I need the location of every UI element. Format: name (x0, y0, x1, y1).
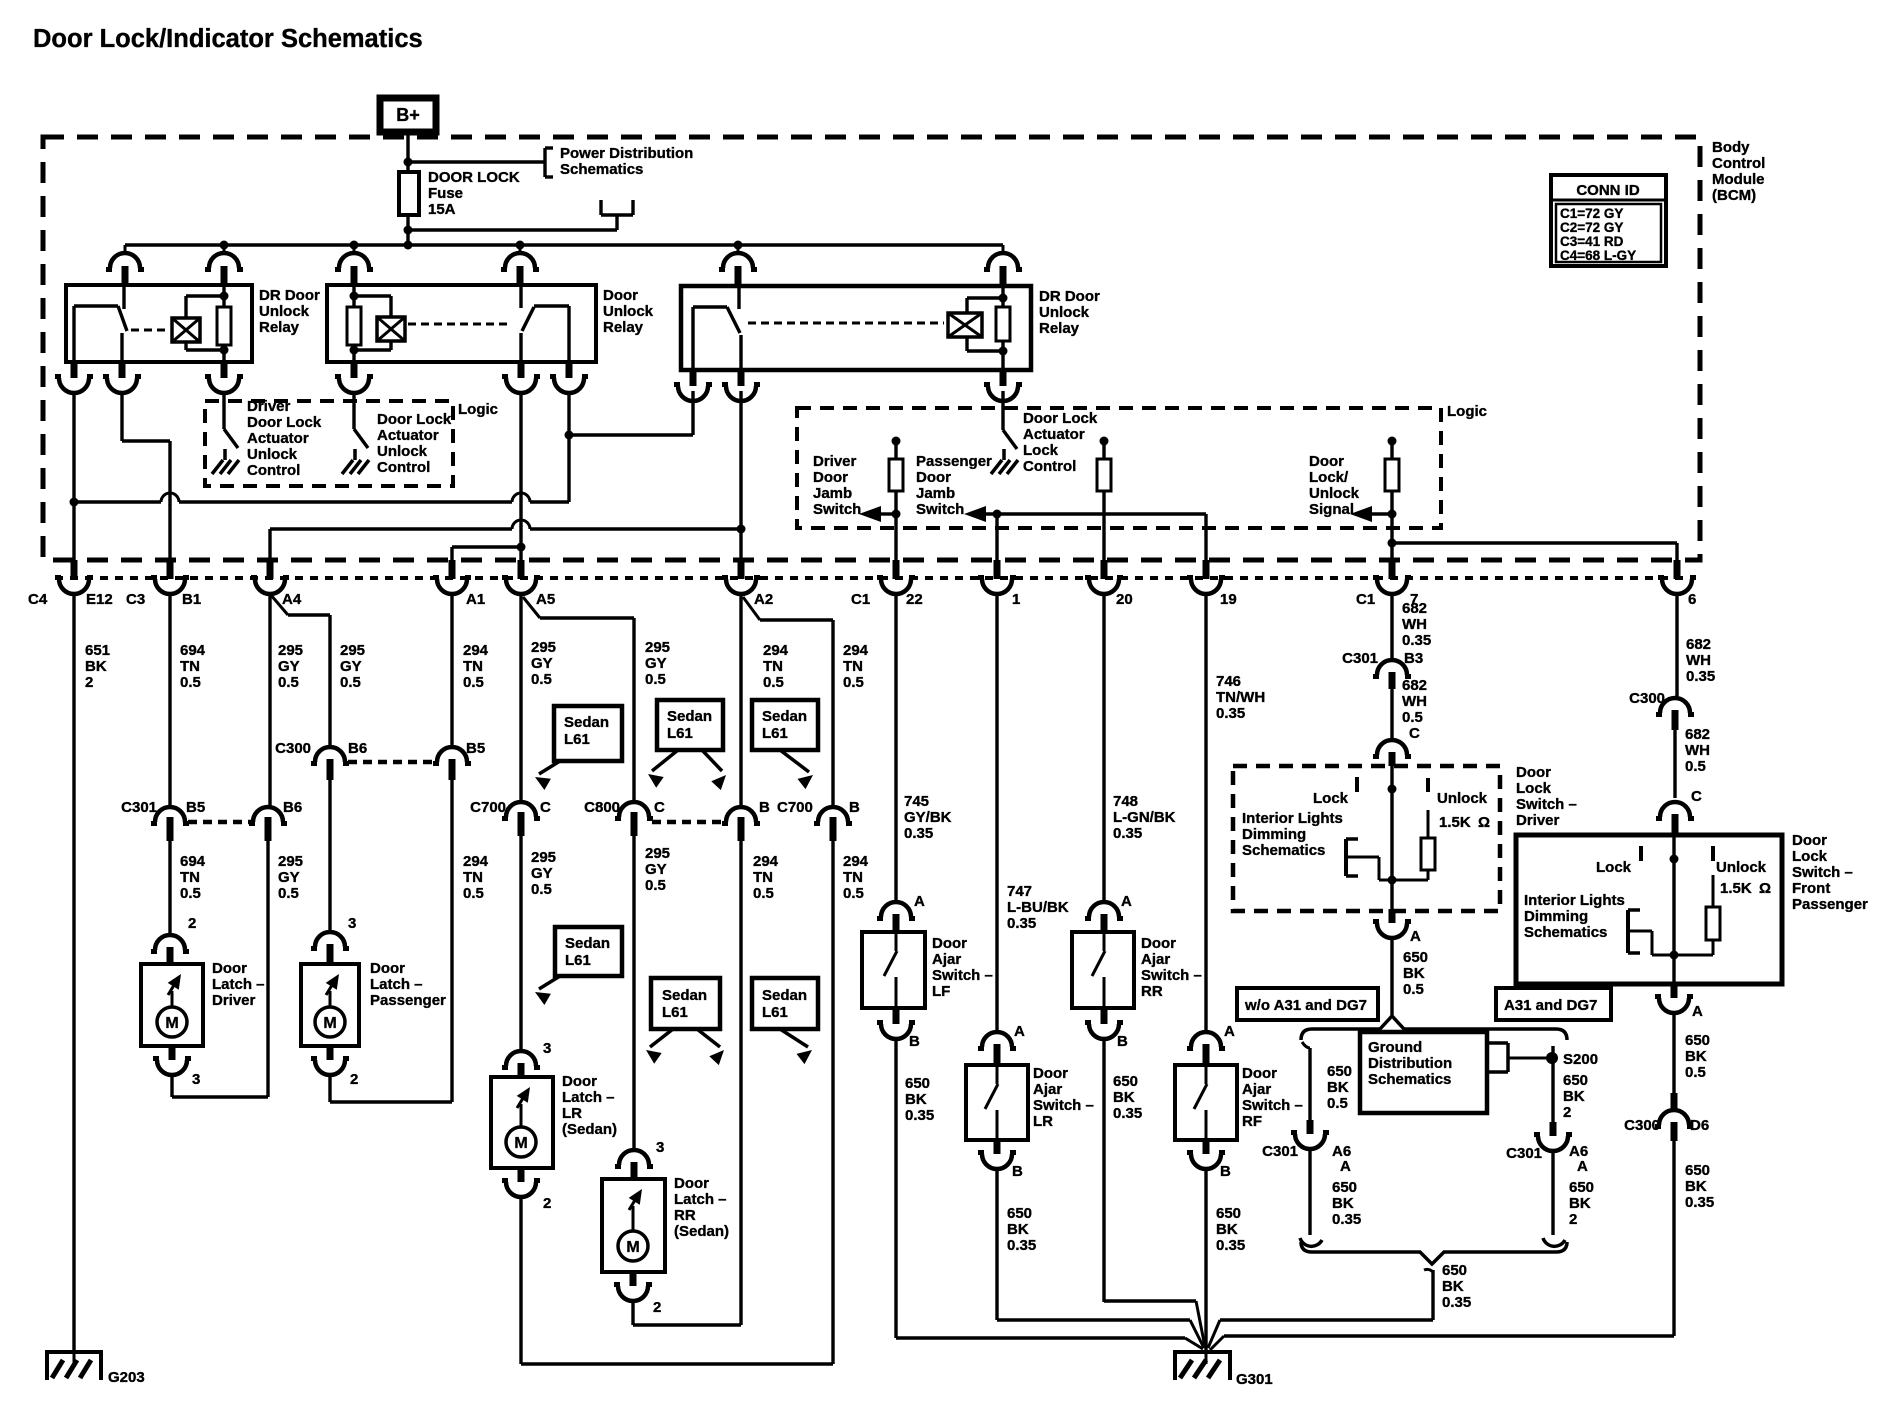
svg-text:Front: Front (1792, 880, 1830, 897)
svg-text:Latch –: Latch – (370, 976, 423, 993)
svg-text:Passenger: Passenger (370, 992, 446, 1009)
svg-text:0.5: 0.5 (843, 674, 864, 691)
svg-text:Door: Door (916, 469, 951, 486)
svg-text:C300: C300 (275, 740, 311, 757)
svg-text:A1: A1 (466, 591, 485, 608)
svg-text:C300: C300 (1624, 1117, 1660, 1134)
svg-text:Schematics: Schematics (1524, 924, 1607, 941)
svg-text:Distribution: Distribution (1368, 1055, 1452, 1072)
svg-text:WH: WH (1402, 693, 1427, 710)
svg-text:C301: C301 (121, 799, 157, 816)
svg-text:B6: B6 (348, 740, 367, 757)
svg-text:B: B (1220, 1163, 1231, 1180)
svg-text:0.5: 0.5 (463, 885, 484, 902)
svg-text:Unlock: Unlock (377, 443, 428, 460)
svg-text:0.35: 0.35 (1113, 1105, 1142, 1122)
svg-text:C301: C301 (1506, 1145, 1542, 1162)
svg-text:C4: C4 (28, 591, 48, 608)
svg-text:Door Lock: Door Lock (247, 414, 322, 431)
svg-text:TN: TN (180, 658, 200, 675)
svg-text:Logic: Logic (1447, 403, 1487, 420)
svg-text:0.5: 0.5 (1402, 709, 1423, 726)
svg-text:295: 295 (340, 642, 365, 659)
svg-text:A4: A4 (282, 591, 302, 608)
svg-text:650: 650 (1216, 1205, 1241, 1222)
svg-text:M: M (514, 1135, 527, 1152)
svg-text:650: 650 (1113, 1073, 1138, 1090)
svg-text:Module: Module (1712, 171, 1765, 188)
svg-text:WH: WH (1402, 616, 1427, 633)
svg-text:682: 682 (1685, 726, 1710, 743)
svg-text:20: 20 (1116, 591, 1133, 608)
svg-text:A: A (1014, 1023, 1025, 1040)
svg-text:Driver: Driver (212, 992, 256, 1009)
svg-text:B: B (759, 799, 770, 816)
svg-text:Lock: Lock (1596, 859, 1632, 876)
svg-text:RR: RR (1141, 983, 1163, 1000)
svg-text:M: M (323, 1015, 336, 1032)
svg-text:Door: Door (813, 469, 848, 486)
svg-text:Door: Door (932, 935, 967, 952)
svg-text:L-GN/BK: L-GN/BK (1113, 809, 1176, 826)
svg-text:2: 2 (1569, 1211, 1577, 1228)
svg-text:3: 3 (192, 1071, 200, 1088)
svg-text:Passenger: Passenger (916, 453, 992, 470)
svg-text:BK: BK (1685, 1048, 1707, 1065)
svg-text:Switch: Switch (813, 501, 861, 518)
svg-text:6: 6 (1688, 591, 1696, 608)
svg-text:748: 748 (1113, 793, 1138, 810)
svg-text:A2: A2 (754, 591, 773, 608)
svg-text:RF: RF (1242, 1113, 1262, 1130)
svg-text:0.35: 0.35 (1685, 1194, 1714, 1211)
svg-text:651: 651 (85, 642, 110, 659)
svg-text:C3=41 RD: C3=41 RD (1560, 234, 1624, 249)
svg-text:C700: C700 (777, 799, 813, 816)
svg-text:Switch –: Switch – (1792, 864, 1853, 881)
svg-text:Switch: Switch (916, 501, 964, 518)
svg-text:TN: TN (753, 869, 773, 886)
svg-text:682: 682 (1686, 636, 1711, 653)
svg-text:0.5: 0.5 (278, 674, 299, 691)
svg-text:2: 2 (653, 1299, 661, 1316)
svg-text:C: C (1409, 725, 1420, 742)
svg-text:B: B (1117, 1033, 1128, 1050)
svg-text:0.5: 0.5 (278, 885, 299, 902)
svg-text:Lock: Lock (1792, 848, 1828, 865)
svg-text:C1: C1 (851, 591, 870, 608)
svg-text:Sedan: Sedan (565, 935, 610, 952)
svg-text:Control: Control (247, 462, 300, 479)
svg-text:C: C (540, 799, 551, 816)
svg-text:D6: D6 (1690, 1117, 1709, 1134)
svg-text:650: 650 (1332, 1179, 1357, 1196)
svg-text:Relay: Relay (259, 319, 300, 336)
svg-text:Door: Door (603, 287, 638, 304)
svg-text:0.5: 0.5 (645, 671, 666, 688)
svg-text:GY: GY (531, 865, 553, 882)
svg-text:Relay: Relay (1039, 320, 1080, 337)
svg-text:A31 and DG7: A31 and DG7 (1504, 997, 1597, 1014)
svg-text:Logic: Logic (458, 401, 498, 418)
svg-text:Door: Door (212, 960, 247, 977)
svg-text:294: 294 (753, 853, 779, 870)
svg-text:Ajar: Ajar (1141, 951, 1170, 968)
svg-text:Control: Control (377, 459, 430, 476)
svg-text:Door: Door (1516, 764, 1551, 781)
svg-text:650: 650 (1327, 1063, 1352, 1080)
svg-text:C: C (1691, 788, 1702, 805)
svg-text:Sedan: Sedan (762, 708, 807, 725)
svg-text:0.35: 0.35 (1007, 1237, 1036, 1254)
svg-text:GY: GY (645, 655, 667, 672)
svg-text:GY/BK: GY/BK (904, 809, 952, 826)
svg-text:2: 2 (543, 1195, 551, 1212)
svg-text:B3: B3 (1404, 650, 1423, 667)
svg-text:0.5: 0.5 (180, 674, 201, 691)
svg-text:GY: GY (340, 658, 362, 675)
svg-text:0.5: 0.5 (1685, 1064, 1706, 1081)
svg-text:Door: Door (1792, 832, 1827, 849)
svg-text:650: 650 (1569, 1179, 1594, 1196)
svg-text:WH: WH (1686, 652, 1711, 669)
svg-text:Door Lock: Door Lock (377, 411, 452, 428)
svg-text:TN: TN (180, 869, 200, 886)
svg-text:L61: L61 (762, 725, 788, 742)
svg-text:Ajar: Ajar (1033, 1081, 1062, 1098)
svg-text:Actuator: Actuator (377, 427, 439, 444)
svg-text:0.35: 0.35 (1402, 632, 1431, 649)
svg-text:650: 650 (1685, 1162, 1710, 1179)
svg-text:G203: G203 (108, 1369, 145, 1386)
svg-text:Driver: Driver (813, 453, 857, 470)
svg-text:650: 650 (905, 1075, 930, 1092)
svg-text:BK: BK (1403, 965, 1425, 982)
svg-text:BK: BK (85, 658, 107, 675)
svg-text:Unlock: Unlock (259, 303, 310, 320)
svg-text:C300: C300 (1629, 690, 1665, 707)
svg-text:L61: L61 (565, 952, 591, 969)
svg-text:Actuator: Actuator (247, 430, 309, 447)
svg-text:295: 295 (278, 642, 303, 659)
svg-text:BK: BK (1442, 1278, 1464, 1295)
svg-text:746: 746 (1216, 673, 1241, 690)
svg-text:A: A (1224, 1023, 1235, 1040)
svg-text:19: 19 (1220, 591, 1237, 608)
svg-text:Ground: Ground (1368, 1039, 1422, 1056)
svg-text:TN: TN (843, 869, 863, 886)
svg-text:22: 22 (906, 591, 923, 608)
svg-text:0.5: 0.5 (531, 671, 552, 688)
svg-text:BK: BK (905, 1091, 927, 1108)
svg-text:BK: BK (1007, 1221, 1029, 1238)
svg-text:Switch –: Switch – (1242, 1097, 1303, 1114)
svg-text:L-BU/BK: L-BU/BK (1007, 899, 1069, 916)
svg-text:B: B (849, 799, 860, 816)
svg-text:650: 650 (1685, 1032, 1710, 1049)
svg-text:Switch –: Switch – (1516, 796, 1577, 813)
svg-text:Fuse: Fuse (428, 185, 463, 202)
svg-text:Door: Door (562, 1073, 597, 1090)
svg-text:Unlock: Unlock (1039, 304, 1090, 321)
svg-text:0.5: 0.5 (1403, 981, 1424, 998)
svg-text:650: 650 (1442, 1262, 1467, 1279)
svg-text:Door: Door (1141, 935, 1176, 952)
svg-text:Unlock: Unlock (1437, 790, 1488, 807)
svg-text:A: A (1692, 1003, 1703, 1020)
svg-text:Switch –: Switch – (1033, 1097, 1094, 1114)
svg-text:0.5: 0.5 (531, 881, 552, 898)
svg-text:Unlock: Unlock (1309, 485, 1360, 502)
svg-text:294: 294 (463, 853, 489, 870)
svg-text:15A: 15A (428, 201, 456, 218)
svg-text:WH: WH (1685, 742, 1710, 759)
svg-text:0.35: 0.35 (904, 825, 933, 842)
svg-text:3: 3 (543, 1040, 551, 1057)
svg-text:295: 295 (531, 849, 556, 866)
svg-text:C2=72 GY: C2=72 GY (1560, 220, 1623, 235)
svg-text:0.5: 0.5 (843, 885, 864, 902)
svg-text:TN: TN (463, 869, 483, 886)
svg-text:TN: TN (763, 658, 783, 675)
svg-text:Schematics: Schematics (1368, 1071, 1451, 1088)
svg-text:B6: B6 (283, 799, 302, 816)
svg-text:E12: E12 (86, 591, 113, 608)
svg-text:0.35: 0.35 (1332, 1211, 1361, 1228)
svg-text:0.5: 0.5 (763, 674, 784, 691)
svg-text:295: 295 (645, 639, 670, 656)
svg-text:0.5: 0.5 (753, 885, 774, 902)
svg-text:294: 294 (843, 642, 869, 659)
svg-text:Lock/: Lock/ (1309, 469, 1349, 486)
svg-text:DR Door: DR Door (259, 287, 320, 304)
svg-text:GY: GY (278, 869, 300, 886)
svg-text:Sedan: Sedan (762, 987, 807, 1004)
svg-text:Unlock: Unlock (247, 446, 298, 463)
svg-text:B: B (1012, 1163, 1023, 1180)
svg-text:Body: Body (1712, 139, 1750, 156)
svg-text:C301: C301 (1342, 650, 1378, 667)
svg-text:0.5: 0.5 (1327, 1095, 1348, 1112)
svg-text:650: 650 (1563, 1072, 1588, 1089)
svg-text:BK: BK (1327, 1079, 1349, 1096)
svg-text:295: 295 (278, 853, 303, 870)
svg-text:Sedan: Sedan (564, 714, 609, 731)
svg-text:Door: Door (1242, 1065, 1277, 1082)
svg-text:RR: RR (674, 1207, 696, 1224)
svg-text:(Sedan): (Sedan) (562, 1121, 617, 1138)
svg-text:Door: Door (1033, 1065, 1068, 1082)
svg-text:0.35: 0.35 (1442, 1294, 1471, 1311)
svg-text:L61: L61 (564, 731, 590, 748)
svg-text:2: 2 (350, 1071, 358, 1088)
svg-text:B1: B1 (182, 591, 201, 608)
svg-text:0.5: 0.5 (340, 674, 361, 691)
svg-text:0.5: 0.5 (180, 885, 201, 902)
svg-text:294: 294 (843, 853, 869, 870)
svg-text:L61: L61 (762, 1004, 788, 1021)
svg-text:0.35: 0.35 (1216, 1237, 1245, 1254)
svg-text:Lock: Lock (1313, 790, 1349, 807)
svg-text:BK: BK (1685, 1178, 1707, 1195)
svg-text:Door: Door (674, 1175, 709, 1192)
svg-text:S200: S200 (1563, 1051, 1598, 1068)
svg-text:1.5K: 1.5K (1439, 814, 1471, 831)
svg-text:Latch –: Latch – (674, 1191, 727, 1208)
svg-text:CONN ID: CONN ID (1576, 182, 1640, 199)
svg-text:A5: A5 (536, 591, 555, 608)
svg-text:Actuator: Actuator (1023, 426, 1085, 443)
svg-text:Driver: Driver (247, 398, 291, 415)
svg-text:Jamb: Jamb (916, 485, 955, 502)
svg-text:2: 2 (85, 674, 93, 691)
svg-text:Schematics: Schematics (1242, 842, 1325, 859)
svg-text:B5: B5 (466, 740, 485, 757)
svg-text:A: A (1121, 893, 1132, 910)
svg-text:Ajar: Ajar (1242, 1081, 1271, 1098)
svg-text:B5: B5 (186, 799, 205, 816)
svg-text:Sedan: Sedan (667, 708, 712, 725)
svg-text:0.5: 0.5 (1685, 758, 1706, 775)
svg-text:747: 747 (1007, 883, 1032, 900)
svg-text:2: 2 (1563, 1104, 1571, 1121)
svg-text:w/o A31 and DG7: w/o A31 and DG7 (1244, 997, 1367, 1014)
svg-text:0.35: 0.35 (905, 1107, 934, 1124)
svg-text:L61: L61 (667, 725, 693, 742)
svg-text:Latch –: Latch – (212, 976, 265, 993)
svg-text:C700: C700 (470, 799, 506, 816)
svg-text:Ω: Ω (1478, 814, 1490, 831)
svg-text:TN/WH: TN/WH (1216, 689, 1265, 706)
svg-text:C1: C1 (1356, 591, 1375, 608)
svg-text:0.35: 0.35 (1686, 668, 1715, 685)
svg-text:0.5: 0.5 (645, 877, 666, 894)
svg-text:3: 3 (348, 915, 356, 932)
svg-text:Switch –: Switch – (1141, 967, 1202, 984)
svg-text:C3: C3 (126, 591, 145, 608)
svg-text:C1=72 GY: C1=72 GY (1560, 206, 1623, 221)
svg-text:Passenger: Passenger (1792, 896, 1868, 913)
svg-text:GY: GY (645, 861, 667, 878)
svg-text:TN: TN (463, 658, 483, 675)
svg-text:Driver: Driver (1516, 812, 1560, 829)
svg-text:Interior Lights: Interior Lights (1242, 810, 1343, 827)
svg-text:B: B (909, 1033, 920, 1050)
svg-text:Latch –: Latch – (562, 1089, 615, 1106)
svg-text:(BCM): (BCM) (1712, 187, 1756, 204)
svg-text:A: A (1340, 1158, 1351, 1175)
svg-text:Signal: Signal (1309, 501, 1354, 518)
svg-text:A: A (1410, 928, 1421, 945)
svg-text:M: M (626, 1239, 639, 1256)
svg-text:B+: B+ (396, 105, 420, 125)
svg-text:LR: LR (1033, 1113, 1053, 1130)
svg-text:Door Lock/Indicator Schematics: Door Lock/Indicator Schematics (33, 25, 423, 53)
svg-text:682: 682 (1402, 677, 1427, 694)
svg-text:Dimming: Dimming (1524, 908, 1588, 925)
svg-text:Ajar: Ajar (932, 951, 961, 968)
svg-text:GY: GY (531, 655, 553, 672)
svg-text:Control: Control (1712, 155, 1765, 172)
svg-text:DR Door: DR Door (1039, 288, 1100, 305)
svg-text:Unlock: Unlock (1716, 859, 1767, 876)
svg-text:Lock: Lock (1023, 442, 1059, 459)
svg-text:A: A (1577, 1158, 1588, 1175)
svg-text:694: 694 (180, 853, 206, 870)
svg-text:LF: LF (932, 983, 950, 1000)
svg-text:GY: GY (278, 658, 300, 675)
svg-text:(Sedan): (Sedan) (674, 1223, 729, 1240)
svg-text:Unlock: Unlock (603, 303, 654, 320)
svg-text:Schematics: Schematics (560, 161, 643, 178)
svg-text:L61: L61 (662, 1004, 688, 1021)
svg-text:Dimming: Dimming (1242, 826, 1306, 843)
svg-text:Door: Door (1309, 453, 1344, 470)
svg-text:Door: Door (370, 960, 405, 977)
svg-text:Jamb: Jamb (813, 485, 852, 502)
svg-text:745: 745 (904, 793, 929, 810)
svg-text:2: 2 (188, 915, 196, 932)
svg-text:M: M (165, 1015, 178, 1032)
svg-text:C: C (654, 799, 665, 816)
svg-text:Sedan: Sedan (662, 987, 707, 1004)
svg-text:C301: C301 (1262, 1143, 1298, 1160)
svg-text:BK: BK (1113, 1089, 1135, 1106)
svg-text:BK: BK (1332, 1195, 1354, 1212)
svg-text:294: 294 (763, 642, 789, 659)
svg-text:Interior Lights: Interior Lights (1524, 892, 1625, 909)
svg-text:0.35: 0.35 (1113, 825, 1142, 842)
svg-text:0.35: 0.35 (1007, 915, 1036, 932)
svg-text:294: 294 (463, 642, 489, 659)
svg-text:Ω: Ω (1759, 880, 1771, 897)
svg-text:0.35: 0.35 (1216, 705, 1245, 722)
svg-text:Switch –: Switch – (932, 967, 993, 984)
svg-text:3: 3 (656, 1139, 664, 1156)
svg-text:BK: BK (1569, 1195, 1591, 1212)
svg-text:TN: TN (843, 658, 863, 675)
svg-text:BK: BK (1563, 1088, 1585, 1105)
svg-text:DOOR LOCK: DOOR LOCK (428, 169, 520, 186)
svg-text:1: 1 (1012, 591, 1020, 608)
svg-text:G301: G301 (1236, 1371, 1273, 1388)
svg-text:LR: LR (562, 1105, 582, 1122)
svg-text:C4=68 L-GY: C4=68 L-GY (1560, 248, 1636, 263)
svg-text:694: 694 (180, 642, 206, 659)
svg-text:295: 295 (645, 845, 670, 862)
svg-text:Lock: Lock (1516, 780, 1552, 797)
svg-text:A: A (914, 893, 925, 910)
svg-text:650: 650 (1403, 949, 1428, 966)
svg-text:BK: BK (1216, 1221, 1238, 1238)
svg-text:Control: Control (1023, 458, 1076, 475)
svg-text:0.5: 0.5 (463, 674, 484, 691)
svg-text:650: 650 (1007, 1205, 1032, 1222)
svg-text:682: 682 (1402, 600, 1427, 617)
svg-text:C800: C800 (584, 799, 620, 816)
svg-text:295: 295 (531, 639, 556, 656)
svg-text:Power Distribution: Power Distribution (560, 145, 693, 162)
svg-text:Relay: Relay (603, 319, 644, 336)
svg-text:1.5K: 1.5K (1720, 880, 1752, 897)
svg-text:Door Lock: Door Lock (1023, 410, 1098, 427)
